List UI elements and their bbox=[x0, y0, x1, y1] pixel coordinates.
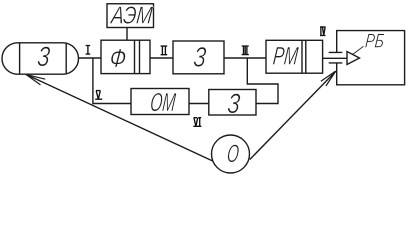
svg-text:РМ: РМ bbox=[272, 41, 301, 70]
svg-text:АЭМ: АЭМ bbox=[108, 1, 154, 29]
svg-text:РБ: РБ bbox=[364, 29, 385, 52]
svg-text:ОМ: ОМ bbox=[149, 88, 177, 117]
svg-text:Ф: Ф bbox=[108, 43, 127, 72]
